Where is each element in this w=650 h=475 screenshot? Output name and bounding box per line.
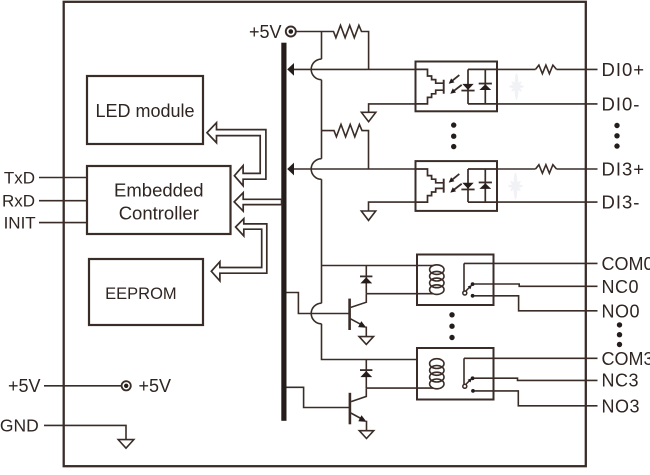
svg-text:COM0: COM0 [602,254,650,274]
relay K2 box [417,348,494,400]
svg-text:NO3: NO3 [602,396,641,416]
bus arrow LED module <-> Embedded Controller [207,123,266,186]
wire hop at y=169.0 [311,159,321,180]
wire K2 coil bottom to node [366,387,433,389]
relay K1 pivot [463,291,467,295]
block LED module [87,76,203,144]
svg-text:DI0+: DI0+ [602,59,646,80]
label NC3 [602,370,640,390]
bus arrow power bus -> Embedded Controller [234,193,281,211]
label NO3 [602,396,641,416]
label DI0- [602,93,641,114]
label COM0 [602,254,650,274]
svg-text:Controller: Controller [119,203,199,224]
opto-coupler U1 [416,62,498,112]
svg-text:GND: GND [0,416,39,436]
transistor Q2 emitter [351,413,367,422]
resistor R3 (DI0+ series) [536,65,557,74]
label INIT [4,213,36,232]
faint watermark ghost lower [508,173,523,200]
wire U1 low side / DI0- [369,104,598,112]
svg-text:DI0-: DI0- [602,93,641,114]
label NO0 [602,301,641,321]
transistor Q2 collector [351,388,366,402]
label RxD [2,192,35,211]
outer module border [64,2,586,466]
faint watermark ghost upper [509,73,524,100]
wire +5V to relay K1 coil [322,265,434,267]
svg-text:LED module: LED module [95,101,194,121]
wire R4 to DI3+ terminal [557,168,598,170]
transistor Q1 base bar [348,299,351,330]
+5V top terminal node [286,27,296,37]
wire COM0 [464,262,598,264]
wire NC3 [474,378,597,380]
wire hop at y=69.4 [311,59,321,80]
ground (GND input) [118,440,134,449]
resistor R1 (+5V pull-up DI0) [322,25,369,69]
wire DI0 line (bus to opto U1) [294,68,416,70]
svg-text:+5V: +5V [249,22,282,42]
wire NO3 [474,391,597,406]
block EEPROM [89,259,203,325]
label DI3+ [602,159,646,180]
relay K2 NO contact [471,389,475,393]
relay K2 armature [466,378,472,385]
svg-text:DI3-: DI3- [602,192,641,213]
flyback diode D2 [360,360,372,389]
text EEPROM [105,285,177,303]
svg-text:+5V: +5V [8,376,41,396]
+5V top label [249,22,282,42]
relay K2 switch common [463,358,465,384]
bus arrow Embedded Controller <-> EEPROM [211,219,266,281]
wire +5V input [44,385,122,387]
relay K1 NO contact [471,294,475,298]
wire Q1 emitter to ground [365,327,367,337]
text Embedded Controller [114,179,203,223]
svg-text:NO0: NO0 [602,301,641,321]
label COM3 [602,349,650,369]
label NC0 [602,277,640,297]
+5V vertical rail (to relay K2 coil) [322,32,417,360]
wire U2 out to R4 [497,168,536,170]
transistor Q1 emitter [351,319,367,328]
ellipsis dots (relay terminals, right) [617,322,622,347]
opto-coupler U2 [416,161,498,211]
wire U2 low side / DI3- [369,202,598,211]
relay K1 coil [430,265,444,295]
power bus bar [281,43,286,421]
wire Q2 base from bus [287,387,350,407]
block Embedded Controller [87,166,231,234]
ellipsis dots (relay channels, middle) [449,312,454,340]
ellipsis dots (DI channels, middle) [451,122,456,149]
label GND [0,416,39,436]
ground (Q2 emitter) [359,431,373,439]
label TxD [4,168,35,187]
arrowhead DI3 signal into bus [287,163,294,176]
wire K1 coil bottom to node [366,293,433,295]
+5V input terminal node [122,381,131,390]
wire Q1 base from bus [287,293,349,314]
wire INIT [39,222,88,224]
relay K1 NC contact [471,282,475,286]
svg-text:+5V: +5V [139,376,172,396]
label DI3- [602,192,641,213]
wire COM3 [464,357,598,359]
svg-text:COM3: COM3 [602,349,650,369]
wire TxD [39,177,88,179]
relay K1 armature [466,285,472,292]
svg-text:RxD: RxD [2,192,35,211]
transistor Q1 collector [351,294,367,308]
wire NC0 [474,284,597,286]
wire DI3 line (bus to opto U2) [294,168,416,170]
wire RxD [39,200,88,202]
wire +5V node to junction [295,31,321,33]
wire NO0 [474,296,597,311]
wire hop at y=313.5 [311,303,321,324]
relay K2 pivot [463,384,467,388]
resistor R2 (+5V pull-up DI3) [322,124,369,169]
svg-text:TxD: TxD [4,168,35,187]
ground (Q1 emitter) [359,337,373,345]
transistor Q2 base bar [349,393,352,425]
ground (U2 emitter side) [361,211,375,220]
relay K2 coil [430,359,444,389]
label +5V bottom-left [8,376,41,396]
ground (U1 emitter side) [361,112,375,121]
svg-text:NC0: NC0 [602,277,640,297]
ellipsis dots (DI terminals, right) [614,123,619,149]
flyback diode D1 [360,266,372,294]
svg-text:Embedded: Embedded [114,179,203,200]
relay K2 NC contact [471,376,475,380]
label +5V inner [139,376,172,396]
svg-text:EEPROM: EEPROM [105,285,177,303]
arrowhead DI0 signal into bus [287,63,294,76]
wire R3 to DI0+ terminal [557,68,598,70]
wire U1 out to R3 [497,68,536,70]
wire GND to ground [44,425,126,439]
wire Q2 emitter to ground [366,421,368,431]
resistor R4 (DI3+ series) [536,165,557,174]
relay K1 box [417,255,494,306]
svg-text:INIT: INIT [4,213,36,232]
label DI0+ [602,59,646,80]
svg-text:NC3: NC3 [602,370,640,390]
svg-text:DI3+: DI3+ [602,159,646,180]
relay K1 switch common [463,263,465,291]
text LED module [95,101,194,121]
